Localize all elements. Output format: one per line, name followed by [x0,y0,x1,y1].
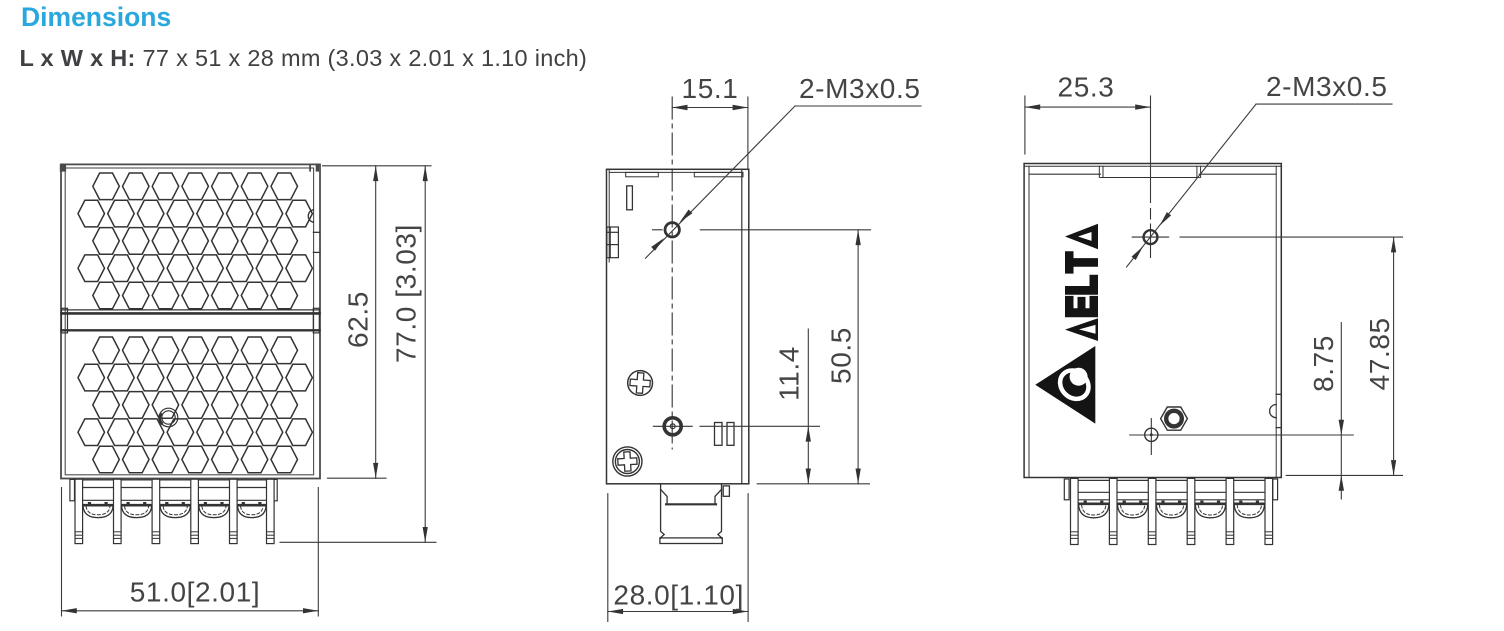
right view potentiometer hex nut [1161,407,1188,430]
svg-text:28.0[1.10]: 28.0[1.10] [613,580,744,611]
side view DIN clip [607,227,619,258]
dimension 62.5 [323,166,432,478]
right view terminal block [1064,479,1277,518]
delta logo letter L [1065,275,1098,295]
delta logo letter A [1065,224,1098,250]
svg-text:25.3: 25.3 [1058,72,1115,103]
side view body [607,169,749,484]
dimension 25.3 [1025,96,1151,203]
leader 2-M3x0.5 (side view) [646,106,922,258]
svg-text:50.5: 50.5 [826,327,857,384]
right view small hole [1145,419,1158,455]
side view lower hole [653,418,692,435]
svg-text:2-M3x0.5: 2-M3x0.5 [1266,71,1388,102]
dimension 77.0 [3.03] [280,166,436,543]
front view lower vent hexagon grid [78,337,312,473]
svg-text:8.75: 8.75 [1308,335,1339,392]
svg-text:15.1: 15.1 [682,73,739,104]
leader 2-M3x0.5 (right view) [1127,104,1393,267]
dimension 11.4 [700,329,820,484]
front view ground screw seen through vent [159,408,178,427]
svg-text:77.0 [3.03]: 77.0 [3.03] [391,224,422,363]
delta logo letter T [1065,251,1098,273]
side view screw 2 [613,447,642,476]
right view terminal pins [1071,478,1273,544]
right view upper M3 hole [1132,209,1168,258]
dimension 28.0 [1.10] [608,494,748,622]
front view terminal pins [75,479,274,543]
front view outer case [60,164,320,479]
svg-text:51.0[2.01]: 51.0[2.01] [130,577,261,608]
svg-text:Dimensions: Dimensions [21,2,171,32]
delta logo letter D [1065,318,1098,341]
front view middle separator band [62,308,320,333]
front view terminal block [70,479,277,517]
svg-text:47.85: 47.85 [1364,317,1395,390]
delta logo mark triangle [1035,224,1098,424]
side view upper M3 hole [653,223,680,237]
front view upper vent hexagon grid [78,173,312,309]
dimension 8.75 [1130,323,1354,500]
right side view body [1024,164,1281,478]
side view vertical centerline [671,97,673,449]
right view edge clip bump [1270,394,1282,427]
side view pin slots [715,423,735,446]
front view right edge clip bump [308,210,320,253]
svg-text:2-M3x0.5: 2-M3x0.5 [799,73,921,104]
dimension 47.85 [1180,237,1402,475]
side view screw 1 [628,371,653,396]
svg-text:11.4: 11.4 [774,346,805,401]
svg-text:62.5: 62.5 [343,291,374,348]
svg-text:L x W x H: 77 x 51 x 28 mm (3.: L x W x H: 77 x 51 x 28 mm (3.03 x 2.01 … [20,45,588,71]
side view bottom connector [660,484,730,543]
dimension 51.0 [2.01] [62,488,319,617]
side view top slot [627,186,633,210]
dimension 15.1 [672,97,748,169]
dimension 50.5 [700,230,870,484]
delta logo letter E [1065,296,1098,317]
